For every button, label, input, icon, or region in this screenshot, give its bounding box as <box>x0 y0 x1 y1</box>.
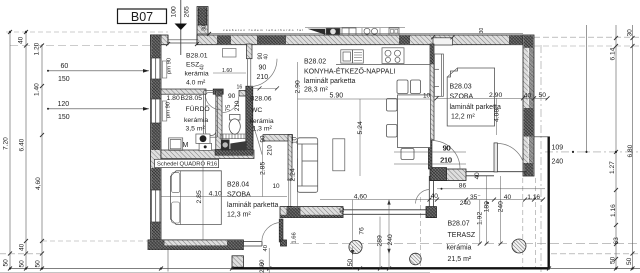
door B28.04 to terrace <box>262 219 298 252</box>
svg-text:4.0 m²: 4.0 m² <box>186 80 206 87</box>
svg-text:2.90: 2.90 <box>294 80 301 93</box>
svg-text:75: 75 <box>225 104 232 111</box>
door arc ESZ to FURDO <box>205 95 221 110</box>
svg-text:kerámia: kerámia <box>184 117 208 124</box>
furniture: bathroom washbasin <box>196 134 212 150</box>
section marker B07 <box>118 9 167 24</box>
svg-text:Schedel QUADRO R16: Schedel QUADRO R16 <box>157 162 217 168</box>
svg-text:30: 30 <box>202 25 208 31</box>
svg-text:4.08: 4.08 <box>493 109 500 122</box>
svg-text:1.80: 1.80 <box>167 95 180 102</box>
dim 2.85 / 2.24 near partition <box>259 139 297 206</box>
svg-text:B28.06: B28.06 <box>250 96 272 103</box>
furniture: hob <box>382 48 404 64</box>
svg-text:120: 120 <box>58 101 70 108</box>
svg-text:2.90: 2.90 <box>489 92 502 99</box>
furniture: TV board <box>333 139 345 171</box>
room label B28.02 <box>304 59 395 100</box>
cabinet in ESZ <box>223 49 237 58</box>
svg-text:M: M <box>183 142 189 149</box>
svg-text:laminált parketta: laminált parketta <box>304 78 355 85</box>
svg-text:1,3 m²: 1,3 m² <box>253 126 273 133</box>
glass wall B28.04/terrace <box>243 241 262 246</box>
svg-text:2.85: 2.85 <box>196 190 203 203</box>
svg-text:kerámia: kerámia <box>447 245 472 252</box>
radiator under window W1 <box>162 61 167 78</box>
wall FURDO/WC vertical <box>216 91 222 156</box>
B28.03 south wall piece <box>430 168 466 181</box>
svg-text:5.24: 5.24 <box>357 121 364 134</box>
svg-text:10: 10 <box>273 183 281 190</box>
room label B28.05 FURDO <box>167 95 210 133</box>
svg-text:12,3 m²: 12,3 m² <box>227 212 251 219</box>
furniture: dining table <box>387 80 431 160</box>
terrace bottom tick marks <box>159 242 551 271</box>
dim 5.24 living <box>298 99 431 176</box>
entry door opening <box>168 35 197 45</box>
svg-text:240: 240 <box>387 234 394 246</box>
right exterior wall <box>523 35 534 176</box>
top wall tick marks <box>166 32 455 46</box>
svg-text:TERASZ: TERASZ <box>448 232 476 239</box>
svg-text:50: 50 <box>3 259 10 267</box>
svg-text:40: 40 <box>504 194 512 201</box>
svg-text:6,80: 6,80 <box>627 144 634 157</box>
terrace top edge line at right wall <box>533 136 549 138</box>
dimension chain lines left <box>10 31 168 272</box>
B28.04 south wall <box>148 240 243 250</box>
furniture: bathtub <box>204 91 218 138</box>
svg-text:109: 109 <box>552 144 564 151</box>
svg-text:90: 90 <box>259 65 267 72</box>
top exterior wall <box>151 33 524 44</box>
svg-text:12,2 m²: 12,2 m² <box>451 113 475 120</box>
svg-text:B28.04: B28.04 <box>227 182 249 189</box>
svg-text:60: 60 <box>61 63 69 70</box>
svg-text:86: 86 <box>459 182 467 189</box>
svg-text:vasbeton fodem teherhordo f: vasbeton fodem teherhordo fal <box>223 28 303 32</box>
svg-text:40: 40 <box>474 172 481 180</box>
svg-text:30: 30 <box>627 29 634 37</box>
room label B28.03 <box>450 84 501 121</box>
glass corner living SE vertical <box>429 176 433 206</box>
wall ESZ/living vertical with door opening <box>247 44 270 87</box>
svg-text:76: 76 <box>359 227 366 235</box>
living south wall <box>280 207 437 218</box>
svg-text:90: 90 <box>228 93 236 100</box>
svg-text:150: 150 <box>58 76 70 83</box>
window W3 in left wall (B28.04) <box>151 190 161 222</box>
vertical dims right of living: 1.92 189 240 <box>477 176 505 244</box>
door arc ESZ to living <box>249 59 277 87</box>
dimension chain lines right <box>587 25 633 269</box>
svg-text:265: 265 <box>184 6 191 18</box>
svg-text:40: 40 <box>431 193 439 200</box>
wall bath-block south (B28.04 north) <box>161 149 254 158</box>
window W1 in left wall (60) <box>151 58 161 79</box>
door jambs B28.04 entry <box>287 180 293 206</box>
svg-text:1.16: 1.16 <box>527 194 540 201</box>
furniture: B28.03 wardrobe <box>433 54 443 96</box>
svg-text:5.90: 5.90 <box>330 93 344 100</box>
construction dashed datum lines right <box>290 37 640 272</box>
svg-text:289: 289 <box>377 235 384 247</box>
neighbour kitchen above top wall <box>305 27 405 35</box>
svg-text:pm 90: pm 90 <box>167 58 173 74</box>
wall WC/living dark shaft <box>246 86 253 155</box>
svg-text:40: 40 <box>264 54 270 60</box>
svg-text:10: 10 <box>423 93 431 100</box>
door B28.03 to terrace <box>494 143 525 172</box>
glass wall B28.03/terrace <box>466 172 527 176</box>
furniture: WC toilet <box>229 115 240 135</box>
svg-text:2.24: 2.24 <box>290 168 297 181</box>
svg-text:B28.03: B28.03 <box>450 84 472 91</box>
window dimension arrows left <box>48 71 149 109</box>
svg-text:50: 50 <box>539 92 547 99</box>
lintel over B28.03 window in top wall <box>433 38 453 45</box>
furniture: WC washbasin dark wedge <box>230 141 246 150</box>
terrace pier below B28.04 wall <box>232 256 243 267</box>
door labels living to B28.03 <box>441 146 453 165</box>
wall stub above entry <box>197 7 208 35</box>
svg-text:50: 50 <box>19 260 26 268</box>
door labels top B28.04 <box>259 260 265 266</box>
svg-text:90: 90 <box>443 146 451 153</box>
svg-text:kerámia: kerámia <box>185 71 209 78</box>
svg-text:B28.01: B28.01 <box>186 53 208 60</box>
svg-text:3,5 m²: 3,5 m² <box>186 126 206 133</box>
svg-text:KONYHA-ÉTKEZŐ-NAPPALI: KONYHA-ÉTKEZŐ-NAPPALI <box>304 67 395 76</box>
svg-text:WC: WC <box>251 107 262 114</box>
door labels WC area <box>225 93 273 156</box>
room label B28.06 WC <box>250 96 274 133</box>
sliding glass wall living/terrace <box>343 207 426 218</box>
chimney block (dark) <box>221 140 230 151</box>
entry marker triangle <box>175 24 188 31</box>
door B28.03 arc labels 90 210 <box>394 146 466 165</box>
svg-text:21,5 m²: 21,5 m² <box>448 256 472 263</box>
terrace dims verticals <box>259 172 481 273</box>
svg-text:240: 240 <box>497 201 504 213</box>
svg-text:B28.05: B28.05 <box>181 95 203 102</box>
svg-text:210: 210 <box>234 100 241 111</box>
furniture: B28.03 bed <box>447 68 494 126</box>
room label B28.07 TERASZ <box>447 221 476 264</box>
partition living/B28.03 <box>430 44 434 140</box>
left exterior wall with windows <box>151 35 162 243</box>
door arc nook to living <box>253 126 262 155</box>
svg-text:30: 30 <box>479 28 485 34</box>
door living to B28.03 <box>428 140 460 169</box>
trees on terrace <box>349 239 526 265</box>
svg-text:210: 210 <box>266 145 273 156</box>
svg-text:40: 40 <box>200 64 206 70</box>
svg-text:B28.07: B28.07 <box>448 221 470 228</box>
svg-text:210: 210 <box>257 74 269 81</box>
dim 2.85 / 4.10 in B28.04 <box>161 159 287 240</box>
svg-text:40: 40 <box>263 245 269 251</box>
bottom edge dimension line <box>0 269 640 273</box>
svg-text:100: 100 <box>171 6 178 18</box>
svg-text:40: 40 <box>524 92 532 99</box>
furniture: kitchen counter <box>336 50 430 65</box>
svg-text:1.40: 1.40 <box>34 83 41 96</box>
room label B28.04 <box>227 182 278 219</box>
door arc WC <box>223 97 239 113</box>
svg-text:240: 240 <box>552 159 564 166</box>
svg-text:1.16: 1.16 <box>610 204 617 217</box>
furniture: washing machine with M label <box>169 138 189 151</box>
svg-text:pm 90: pm 90 <box>166 102 172 118</box>
svg-text:4,60: 4,60 <box>35 177 42 190</box>
left chain labels <box>3 36 43 267</box>
door labels 90/210 ESZ-living <box>257 65 269 82</box>
right chain labels <box>552 29 634 265</box>
partition B28.04/living <box>263 135 293 217</box>
svg-text:FÜRDŐ: FÜRDŐ <box>186 104 210 113</box>
svg-text:50: 50 <box>347 259 354 267</box>
svg-text:SZOBA: SZOBA <box>450 94 474 101</box>
svg-text:ESZ: ESZ <box>186 62 199 69</box>
svg-text:1.27: 1.27 <box>609 161 616 174</box>
svg-text:laminált parketta: laminált parketta <box>227 202 278 209</box>
radiator under window W2 <box>162 101 167 121</box>
svg-text:16: 16 <box>237 84 243 90</box>
svg-text:4,60: 4,60 <box>354 194 367 201</box>
svg-text:1.92: 1.92 <box>477 212 484 225</box>
construction dashed datum lines left <box>0 32 168 254</box>
svg-text:90: 90 <box>260 135 267 142</box>
Schedel chimney label box <box>155 159 219 167</box>
svg-text:7.20: 7.20 <box>3 137 10 150</box>
radiator in WC <box>220 134 247 139</box>
svg-text:40: 40 <box>18 36 25 44</box>
svg-text:189: 189 <box>483 201 490 213</box>
dimension ticks left chains <box>8 30 44 271</box>
svg-text:1.20: 1.20 <box>34 42 41 55</box>
svg-text:50: 50 <box>610 256 617 264</box>
dim 10 labels <box>273 93 431 191</box>
svg-text:B07: B07 <box>131 10 153 24</box>
furniture: B28.04 bed <box>171 171 222 225</box>
svg-text:SZOBA: SZOBA <box>227 192 251 199</box>
svg-text:63: 63 <box>613 237 620 245</box>
window W2 in left wall (120) <box>151 99 161 123</box>
room label B28.01 ESZ <box>185 53 209 87</box>
svg-text:28,3 m²: 28,3 m² <box>304 87 328 94</box>
svg-text:1.66: 1.66 <box>291 232 297 243</box>
door arc living to terrace <box>416 190 430 204</box>
svg-text:6.40: 6.40 <box>19 138 26 151</box>
svg-text:210: 210 <box>440 158 452 165</box>
svg-text:50: 50 <box>35 260 42 268</box>
wall ESZ/FURDO horizontal <box>161 89 246 96</box>
entry door size labels 100 265 <box>171 6 191 18</box>
svg-text:40: 40 <box>339 207 346 215</box>
svg-text:B28.02: B28.02 <box>304 59 326 66</box>
dim 2.90 / 4.08 in B28.03 <box>435 92 550 135</box>
living bottom dim line 4.60 etc <box>320 182 545 206</box>
dimension ticks right chains <box>614 36 635 271</box>
svg-text:2.85: 2.85 <box>259 162 266 175</box>
svg-text:6.14: 6.14 <box>610 47 617 60</box>
svg-text:150: 150 <box>58 114 70 121</box>
svg-text:4.10: 4.10 <box>209 191 222 198</box>
section line at entry <box>180 0 182 55</box>
svg-text:240: 240 <box>259 262 266 273</box>
svg-text:40: 40 <box>19 243 26 251</box>
svg-text:50: 50 <box>626 257 633 265</box>
terrace edge thick lines <box>232 137 550 269</box>
dim 2.90 living nook <box>294 62 301 150</box>
svg-text:kerámia: kerámia <box>250 118 274 125</box>
furniture: sofa <box>298 138 318 193</box>
